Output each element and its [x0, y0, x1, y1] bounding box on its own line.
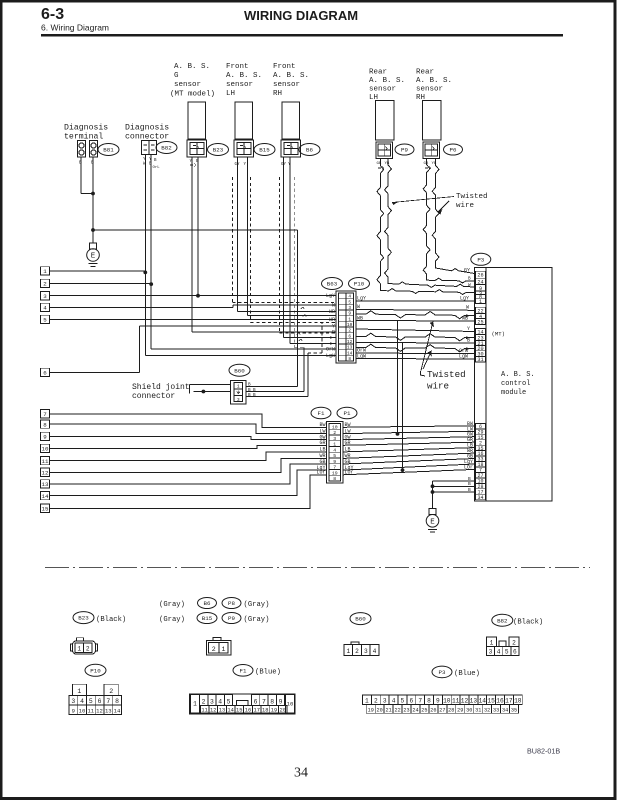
svg-text:18: 18 — [514, 697, 522, 704]
svg-text:1: 1 — [77, 688, 81, 695]
left terminal boxes 1-15 — [41, 267, 50, 275]
svg-text:sensor: sensor — [174, 81, 201, 89]
svg-text:19: 19 — [332, 470, 338, 476]
svg-text:4: 4 — [373, 648, 377, 655]
svg-text:12: 12 — [96, 707, 103, 714]
svg-text:14: 14 — [114, 707, 121, 714]
wire OrW P10-P3 — [356, 352, 475, 355]
svg-text:BW: BW — [319, 422, 325, 428]
diagnosis connector B82 body — [142, 141, 157, 155]
svg-text:P10: P10 — [354, 281, 365, 288]
svg-text:A. B. S.: A. B. S. — [226, 72, 262, 80]
svg-text:1: 1 — [43, 268, 47, 275]
svg-text:P3: P3 — [439, 669, 446, 676]
svg-text:Shield joint: Shield joint — [132, 383, 190, 392]
connector oval P9 — [395, 144, 414, 155]
connector oval B81 — [98, 144, 119, 156]
svg-text:1: 1 — [77, 646, 81, 653]
svg-text:3: 3 — [71, 698, 75, 705]
svg-text:19: 19 — [271, 708, 277, 714]
svg-text:(Gray): (Gray) — [244, 616, 270, 624]
wire B60 right 3 to shield LH — [246, 395, 308, 397]
svg-text:18: 18 — [262, 708, 268, 714]
svg-text:34: 34 — [502, 707, 508, 713]
svg-text:(Gray): (Gray) — [244, 601, 270, 609]
svg-text:A. B. S.: A. B. S. — [174, 63, 210, 71]
connector oval B6 (pinout) — [198, 598, 217, 609]
wires rows 7-15 to F1 connector — [50, 414, 327, 428]
svg-text:4: 4 — [497, 649, 501, 656]
svg-text:2: 2 — [202, 698, 206, 705]
svg-text:3: 3 — [348, 306, 351, 311]
svg-text:WB: WB — [357, 315, 363, 321]
svg-text:Rear: Rear — [369, 69, 387, 77]
svg-text:OrW: OrW — [326, 347, 335, 353]
svg-text:sensor: sensor — [273, 81, 300, 89]
svg-text:10: 10 — [79, 707, 86, 714]
svg-text:B6: B6 — [306, 147, 313, 154]
svg-text:8: 8 — [333, 476, 336, 482]
svg-text:29: 29 — [457, 707, 463, 713]
svg-text:11: 11 — [452, 697, 460, 704]
svg-text:3: 3 — [210, 698, 214, 705]
svg-text:13: 13 — [219, 708, 225, 714]
junction dot B row2 — [431, 484, 435, 488]
svg-text:Front: Front — [273, 63, 296, 71]
ABS G sensor B23 body — [188, 102, 206, 139]
svg-text:10: 10 — [287, 701, 294, 708]
svg-text:LgY: LgY — [326, 293, 335, 299]
svg-text:5: 5 — [227, 698, 231, 705]
svg-text:5: 5 — [333, 453, 336, 459]
svg-text:sensor: sensor — [226, 81, 253, 89]
svg-text:Y: Y — [467, 326, 470, 332]
svg-text:Front: Front — [226, 63, 249, 71]
svg-text:GB: GB — [377, 162, 382, 166]
connector oval P1 — [337, 407, 357, 419]
connector F1 pinout drawing — [190, 694, 295, 714]
svg-text:B82: B82 — [161, 145, 172, 152]
svg-text:Rear: Rear — [416, 69, 434, 77]
connector oval F1 (pinout) — [233, 665, 253, 677]
svg-text:LgY: LgY — [357, 296, 366, 302]
svg-text:9: 9 — [279, 698, 283, 705]
connector oval P10 (pinout) — [85, 664, 106, 676]
svg-text:23: 23 — [403, 707, 409, 713]
svg-text:13: 13 — [105, 707, 112, 714]
twisted wire rear RH outer — [432, 159, 474, 274]
svg-text:G: G — [174, 72, 179, 80]
svg-text:WB: WB — [329, 309, 335, 315]
wire row5 WR — [50, 319, 337, 321]
svg-text:connector: connector — [132, 392, 175, 401]
svg-text:9: 9 — [43, 434, 47, 441]
svg-text:10: 10 — [42, 446, 49, 453]
svg-text:B6: B6 — [204, 600, 211, 607]
svg-text:16: 16 — [245, 708, 251, 714]
svg-text:6-3: 6-3 — [41, 6, 64, 23]
svg-text:14: 14 — [42, 493, 49, 500]
svg-text:24: 24 — [412, 707, 418, 713]
svg-text:B: B — [468, 476, 471, 482]
svg-text:2: 2 — [109, 688, 113, 695]
svg-text:22: 22 — [394, 707, 400, 713]
svg-text:E: E — [91, 253, 96, 261]
svg-text:8: 8 — [43, 421, 47, 428]
svg-text:wire: wire — [456, 202, 474, 210]
P3 strip outer — [475, 268, 487, 502]
svg-text:14: 14 — [347, 351, 353, 356]
front ABS sensor RH B6 body — [282, 102, 300, 139]
svg-text:P9: P9 — [228, 615, 235, 622]
svg-text:Y: Y — [332, 323, 335, 329]
wire front RH 1 — [283, 157, 285, 338]
svg-text:RH: RH — [273, 90, 282, 98]
svg-text:9: 9 — [348, 312, 351, 317]
twisted pair to P3 pin20 — [356, 344, 475, 352]
shield dash front RH — [279, 177, 281, 333]
svg-text:Twisted: Twisted — [427, 369, 466, 380]
svg-text:sensor: sensor — [416, 86, 443, 94]
svg-text:W: W — [466, 305, 469, 311]
svg-text:8: 8 — [427, 697, 431, 704]
rear ABS sensor LH P9 body — [376, 101, 395, 141]
wire B row2 — [433, 485, 475, 487]
connector oval B82 — [156, 142, 177, 154]
svg-text:(MT model): (MT model) — [170, 91, 215, 99]
svg-text:1: 1 — [346, 648, 350, 655]
wire B60 left 2 — [194, 391, 231, 393]
svg-text:3: 3 — [43, 293, 47, 300]
svg-text:5: 5 — [401, 697, 405, 704]
svg-text:A. B. S.: A. B. S. — [369, 77, 405, 85]
junction dot riser2 bottom — [401, 468, 405, 472]
svg-text:sensor: sensor — [369, 86, 396, 94]
svg-text:14: 14 — [227, 708, 233, 714]
svg-text:GR: GR — [319, 440, 325, 446]
svg-text:2: 2 — [355, 648, 359, 655]
svg-text:WIRING DIAGRAM: WIRING DIAGRAM — [244, 8, 358, 23]
svg-text:1: 1 — [490, 639, 494, 646]
svg-text:P10: P10 — [90, 667, 101, 674]
svg-text:LgY: LgY — [460, 296, 469, 302]
svg-text:5: 5 — [348, 300, 351, 305]
svg-text:LgW: LgW — [326, 353, 335, 359]
wire row6 Y via riser — [50, 372, 140, 374]
connector F1/P1 body — [327, 422, 344, 484]
twisted wire rear LH outer — [385, 159, 475, 288]
wire B row1 to ground riser — [433, 480, 475, 482]
junction dot B row3 — [431, 490, 435, 494]
svg-text:B: B — [253, 393, 256, 398]
svg-text:2: 2 — [374, 697, 378, 704]
P3 pin boxes lower — [476, 423, 486, 429]
svg-text:BU82-01B: BU82-01B — [527, 747, 560, 756]
connector B60 pinout drawing — [344, 645, 379, 656]
svg-text:(Blue): (Blue) — [454, 670, 480, 678]
ABS control module box — [486, 268, 552, 502]
svg-text:27: 27 — [439, 707, 445, 713]
svg-text:P3: P3 — [477, 256, 484, 263]
connector B23 pinout drawing — [73, 641, 96, 654]
connector oval B60 — [229, 364, 250, 376]
connector P3 pinout drawing — [363, 695, 372, 705]
svg-text:control: control — [501, 380, 530, 388]
svg-text:8: 8 — [115, 698, 119, 705]
svg-text:B63: B63 — [327, 281, 338, 288]
svg-text:B: B — [468, 487, 471, 493]
wire B row3 — [433, 491, 475, 493]
svg-text:20: 20 — [279, 708, 285, 714]
svg-text:17: 17 — [253, 708, 259, 714]
wire front RH 2 — [289, 157, 291, 344]
wire diag connector left pin down to LgW row — [144, 155, 146, 356]
svg-text:LOr: LOr — [316, 470, 325, 476]
svg-text:4: 4 — [218, 698, 222, 705]
twisted pair to P3 pin4 — [356, 311, 475, 319]
wire B60 right 1 to ground bus — [246, 385, 298, 387]
svg-text:Twisted: Twisted — [456, 193, 488, 201]
wire WB P10-P3 — [356, 320, 475, 323]
svg-text:6: 6 — [254, 698, 258, 705]
svg-text:16: 16 — [496, 697, 504, 704]
connector oval B82 (pinout) — [492, 614, 513, 626]
svg-text:WB: WB — [462, 316, 468, 322]
connector oval B6 — [299, 144, 320, 156]
svg-text:1: 1 — [193, 701, 197, 708]
svg-text:P1: P1 — [344, 410, 351, 417]
svg-text:32: 32 — [484, 707, 490, 713]
connector oval P6 — [444, 144, 463, 155]
svg-text:B82: B82 — [497, 617, 508, 624]
wire front LH 1 — [237, 157, 239, 312]
svg-text:10: 10 — [347, 323, 353, 328]
svg-text:35: 35 — [511, 707, 517, 713]
shield dash front LH — [231, 177, 233, 303]
svg-text:15: 15 — [236, 708, 242, 714]
svg-text:2: 2 — [348, 329, 351, 334]
junction dot LgY G-sensor — [196, 294, 200, 298]
svg-text:25: 25 — [477, 320, 483, 326]
svg-text:30: 30 — [466, 707, 472, 713]
svg-text:B23: B23 — [213, 147, 224, 154]
svg-text:(Gray): (Gray) — [159, 616, 185, 624]
svg-text:4: 4 — [80, 698, 84, 705]
connector B63/P10 body — [336, 291, 356, 363]
connector oval B15 (pinout) — [197, 613, 217, 624]
svg-text:11: 11 — [42, 458, 49, 465]
wire B60 right 2 to shield RH — [246, 391, 304, 393]
svg-text:B: B — [248, 383, 251, 388]
svg-text:4: 4 — [348, 295, 351, 300]
svg-text:W: W — [332, 303, 335, 309]
svg-text:13: 13 — [470, 697, 478, 704]
svg-text:11: 11 — [87, 707, 94, 714]
svg-text:module: module — [501, 389, 526, 397]
P3 pin boxes upper — [476, 271, 486, 278]
ground E upper-left — [90, 243, 97, 249]
svg-text:1: 1 — [479, 299, 482, 305]
svg-text:10: 10 — [443, 697, 451, 704]
svg-text:2: 2 — [43, 281, 47, 288]
svg-text:P9: P9 — [401, 147, 408, 154]
junction dot B60 left — [202, 390, 206, 394]
svg-text:(MT): (MT) — [492, 331, 505, 338]
svg-text:2: 2 — [333, 430, 336, 436]
junction dot row2 — [149, 282, 153, 286]
svg-text:1: 1 — [348, 317, 351, 322]
svg-text:9: 9 — [333, 459, 336, 465]
svg-text:7: 7 — [106, 698, 110, 705]
front ABS sensor LH B15 body — [235, 102, 253, 139]
rear ABS sensor RH P6 body — [423, 101, 442, 141]
svg-text:9: 9 — [72, 707, 75, 714]
svg-text:3: 3 — [383, 697, 387, 704]
svg-text:6: 6 — [98, 698, 102, 705]
svg-text:1: 1 — [237, 384, 240, 390]
svg-text:YB: YB — [385, 162, 390, 166]
svg-text:1: 1 — [222, 646, 226, 653]
wire diag terminal right pin down to ground — [92, 157, 94, 243]
wires P1 to P3 lower — [343, 426, 475, 428]
svg-text:7: 7 — [262, 698, 266, 705]
svg-text:28: 28 — [448, 707, 454, 713]
svg-text:15: 15 — [42, 506, 49, 513]
svg-text:3: 3 — [489, 649, 493, 656]
junction dot diag terminal merge — [91, 192, 95, 196]
svg-text:B: B — [468, 277, 471, 282]
header rule — [41, 34, 563, 37]
connector oval P10 — [349, 278, 370, 290]
svg-text:12: 12 — [42, 470, 49, 477]
wire Y P10-P3 (MT) — [356, 329, 475, 332]
svg-text:33: 33 — [493, 707, 499, 713]
svg-text:6: 6 — [409, 697, 413, 704]
connector oval P9 (pinout) — [222, 613, 241, 624]
svg-text:LOr: LOr — [464, 464, 473, 470]
svg-text:4: 4 — [392, 697, 396, 704]
wire row4 W — [50, 307, 234, 309]
twisted wire rear LH inner — [377, 159, 475, 295]
svg-text:(Gray): (Gray) — [159, 601, 185, 609]
svg-text:A. B. S.: A. B. S. — [273, 72, 309, 80]
junction dot diag terminal ground tap — [91, 228, 95, 232]
svg-text:15: 15 — [487, 697, 495, 704]
svg-text:25: 25 — [421, 707, 427, 713]
junction dot riser1 bottom — [396, 432, 400, 436]
diagnosis terminal pins — [78, 141, 86, 158]
connector B82 pinout drawing — [487, 637, 497, 647]
svg-text:W: W — [468, 283, 471, 288]
svg-text:4: 4 — [43, 305, 47, 312]
wire row2 — [50, 283, 152, 285]
svg-text:B: B — [467, 338, 470, 344]
svg-text:17: 17 — [505, 697, 513, 704]
svg-text:OrL: OrL — [153, 165, 161, 170]
svg-text:5: 5 — [505, 649, 509, 656]
svg-text:2: 2 — [512, 639, 516, 646]
junction dot row1 — [143, 271, 147, 275]
svg-text:11: 11 — [201, 708, 207, 714]
twisted pair to P3 pin23 — [356, 333, 475, 341]
svg-text:7: 7 — [43, 411, 47, 418]
svg-text:1: 1 — [333, 442, 336, 448]
svg-text:5: 5 — [43, 317, 47, 324]
svg-text:2: 2 — [212, 646, 216, 653]
svg-text:12: 12 — [461, 697, 469, 704]
svg-text:B60: B60 — [234, 367, 245, 374]
svg-text:7: 7 — [333, 465, 336, 471]
svg-text:B: B — [468, 481, 471, 487]
svg-text:12: 12 — [210, 708, 216, 714]
svg-text:4: 4 — [333, 447, 336, 453]
svg-text:13: 13 — [347, 346, 353, 351]
svg-text:GB: GB — [319, 459, 325, 465]
svg-text:5: 5 — [89, 698, 93, 705]
svg-text:2: 2 — [86, 646, 90, 653]
svg-text:GY: GY — [464, 267, 470, 273]
wire G sensor right down to LgY row — [197, 157, 199, 296]
svg-text:(Black): (Black) — [513, 618, 543, 626]
svg-text:B15: B15 — [259, 147, 270, 154]
svg-text:LW: LW — [319, 428, 325, 434]
svg-text:(Blue): (Blue) — [255, 669, 281, 677]
connector oval B23 — [208, 144, 229, 156]
svg-text:LH: LH — [226, 90, 235, 98]
wire ground bus to B60 drain — [93, 229, 298, 231]
arrow marks into B63 — [330, 336, 334, 339]
svg-text:19: 19 — [368, 707, 374, 713]
svg-text:34: 34 — [294, 766, 308, 781]
svg-text:E: E — [430, 518, 435, 526]
connector oval P3 (pinout) — [432, 666, 452, 678]
splice hook marks near B63 — [301, 307, 304, 309]
svg-text:3: 3 — [237, 397, 240, 403]
svg-text:26: 26 — [430, 707, 436, 713]
svg-text:34: 34 — [477, 495, 483, 501]
svg-text:6: 6 — [348, 334, 351, 339]
separator dash-dot line — [45, 566, 590, 568]
svg-text:wire: wire — [427, 381, 449, 392]
svg-text:14: 14 — [479, 697, 487, 704]
svg-text:8: 8 — [348, 357, 351, 362]
wire B60 left 1 — [190, 384, 231, 386]
connector oval B15 — [254, 144, 275, 156]
svg-text:10: 10 — [332, 424, 338, 430]
svg-text:F1: F1 — [240, 667, 247, 674]
svg-text:13: 13 — [42, 481, 49, 488]
svg-text:Diagnosis: Diagnosis — [125, 123, 169, 133]
svg-text:9: 9 — [436, 697, 440, 704]
shield joint connector B60 body — [230, 381, 246, 405]
svg-text:31: 31 — [475, 707, 481, 713]
wire riser WB row to LW row — [397, 321, 399, 434]
wire LgW P10-P3 — [356, 358, 475, 361]
svg-text:12: 12 — [347, 340, 353, 345]
svg-text:6. Wiring Diagram: 6. Wiring Diagram — [41, 23, 109, 33]
wire row3 LgY — [50, 295, 337, 297]
wire front LH 2 — [246, 157, 248, 316]
svg-text:B: B — [248, 393, 251, 398]
svg-text:LB: LB — [319, 447, 325, 453]
svg-text:P8: P8 — [228, 600, 235, 607]
svg-text:31: 31 — [477, 357, 483, 363]
svg-text:8: 8 — [270, 698, 274, 705]
svg-text:LgW: LgW — [459, 354, 468, 360]
connector oval F1 — [311, 407, 331, 419]
svg-text:6: 6 — [513, 649, 517, 656]
wire diag terminal left pin down — [80, 157, 82, 194]
